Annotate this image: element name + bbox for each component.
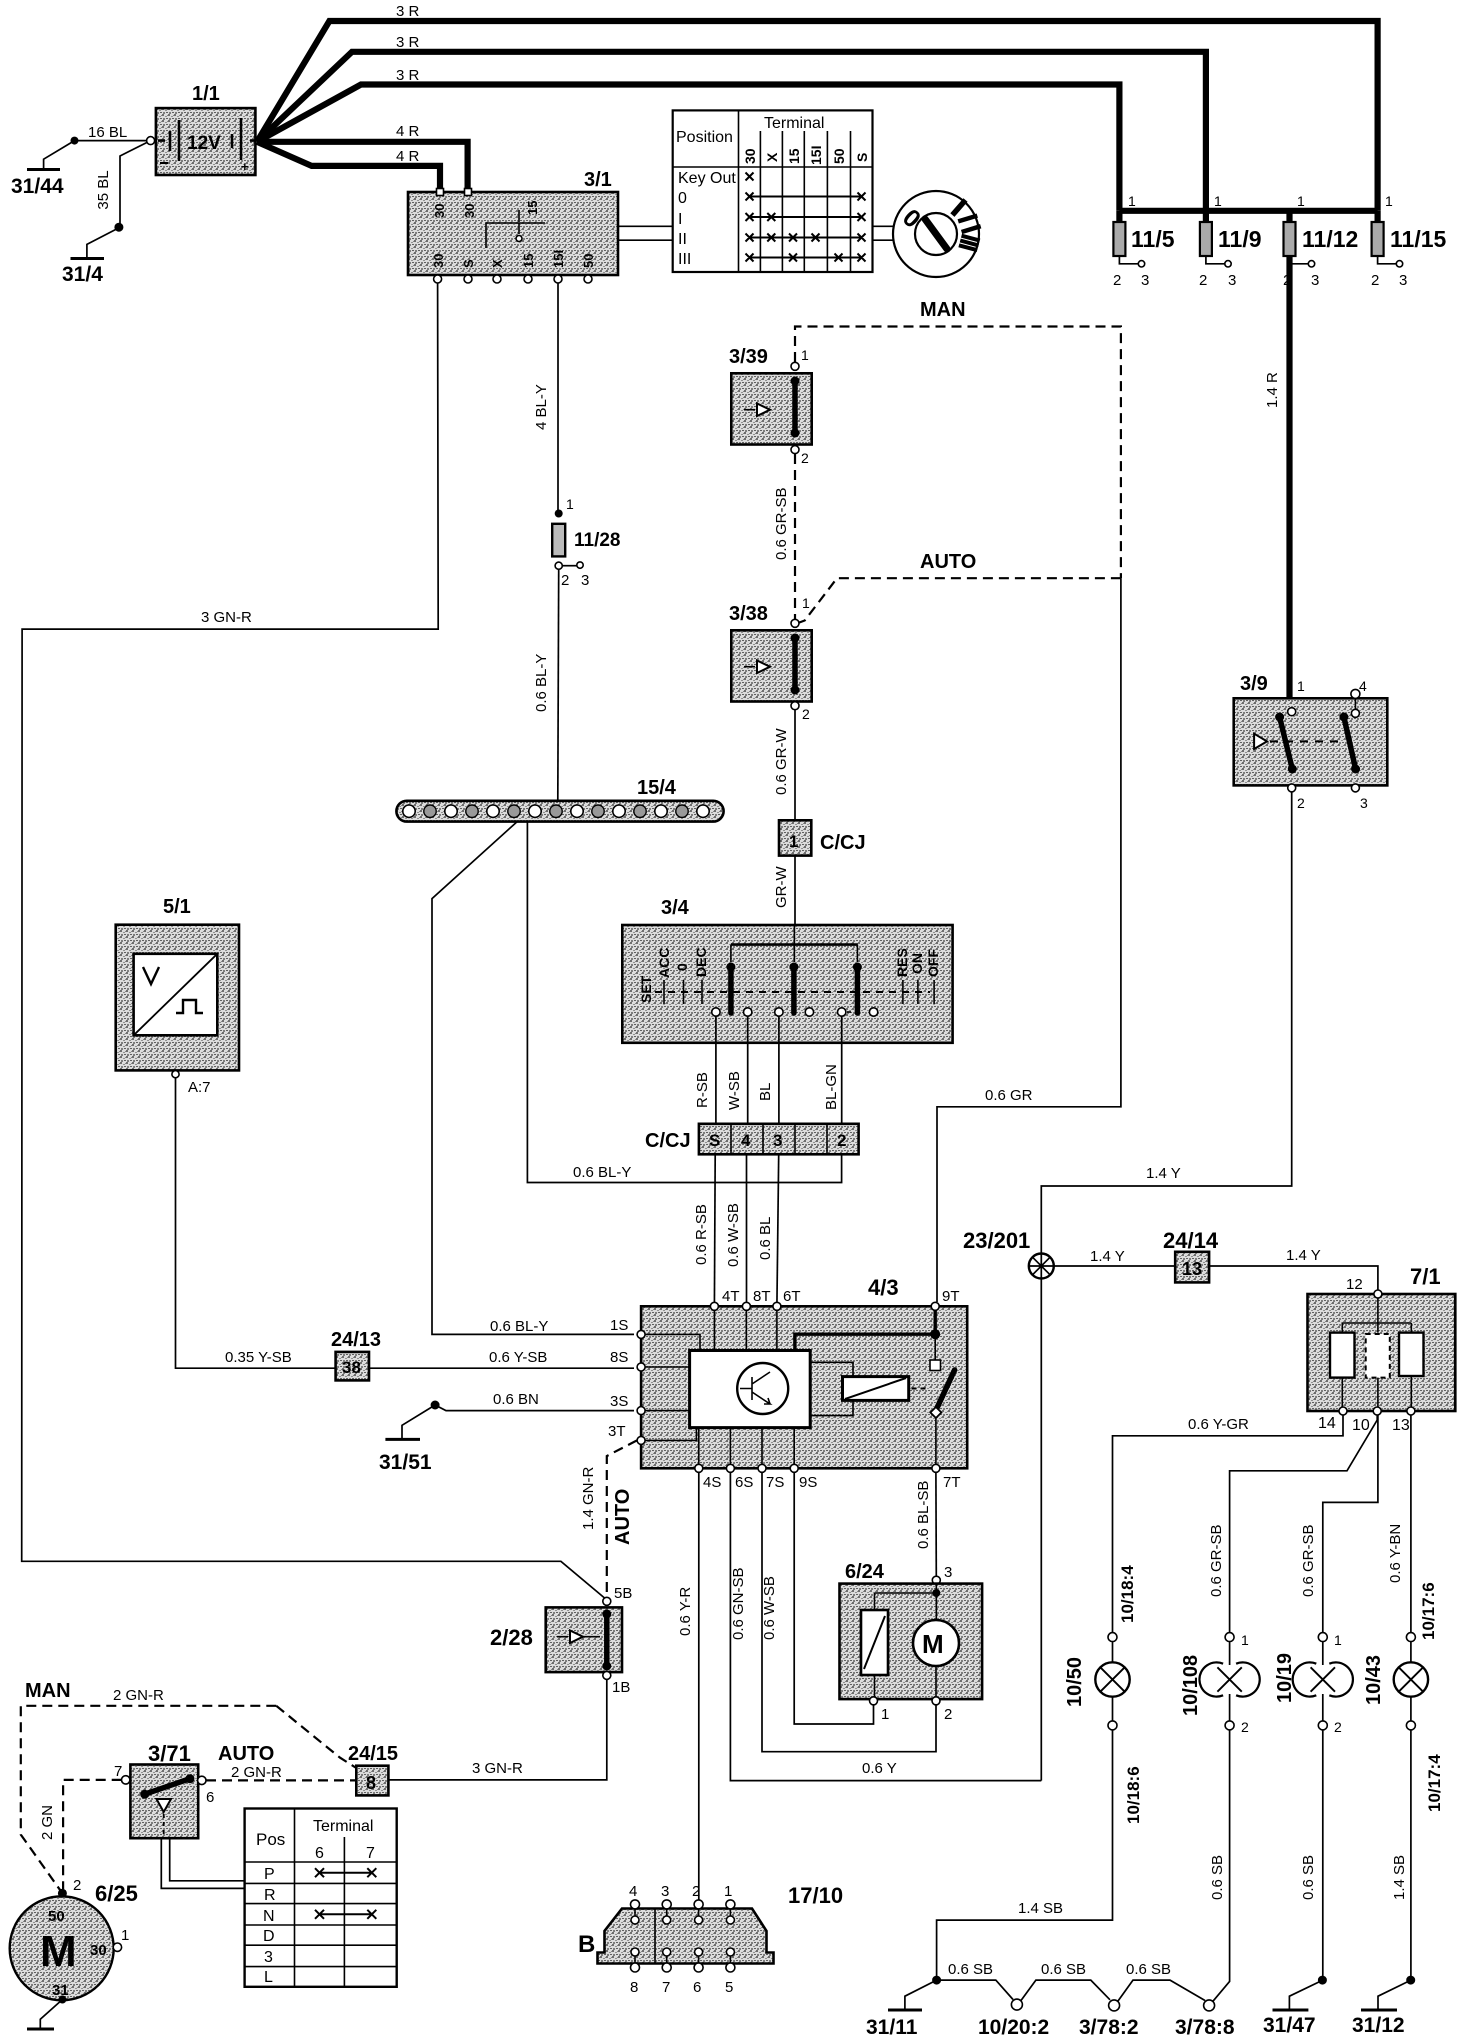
svg-text:1.4 Y: 1.4 Y [1286, 1247, 1321, 1264]
svg-text:2: 2 [692, 1883, 700, 1900]
wire 1.4 SB (lamp 10/43 to ground 31/12) [1378, 1730, 1415, 2009]
svg-text:2: 2 [1199, 272, 1207, 289]
connector strip 15/4 [396, 777, 723, 822]
wire 0.6 W-SB (C/CJ to 4/3 pin 8T) [725, 1154, 747, 1306]
svg-text:X: X [490, 259, 505, 268]
wire table to key symbol upper [873, 225, 894, 227]
svg-text:3: 3 [661, 1883, 669, 1900]
svg-text:16 BL: 16 BL [88, 124, 127, 141]
svg-text:0.6 Y: 0.6 Y [862, 1760, 897, 1777]
svg-text:S: S [461, 259, 476, 268]
ground 31/47 [1263, 2010, 1316, 2037]
dashed wire AUTO net [798, 578, 1121, 623]
svg-text:11/15: 11/15 [1390, 226, 1446, 252]
svg-text:Terminal: Terminal [313, 1818, 373, 1835]
svg-text:6: 6 [693, 1979, 701, 1996]
ground 31/44 [11, 170, 64, 199]
wire 0.6 SB (31/11 to 10/20:2) [937, 1961, 1013, 2000]
svg-text:1.4 SB: 1.4 SB [1018, 1900, 1063, 1917]
wire 3/71 to PNP table [161, 1838, 244, 1888]
wire 0.6 BN (31/51 to 4/3 pin 3S) [402, 1391, 634, 1438]
svg-text:24/14: 24/14 [1163, 1228, 1219, 1253]
connector 17/10 [578, 1883, 843, 1996]
lamp 10/50 [1064, 1565, 1143, 1824]
svg-text:11/12: 11/12 [1302, 226, 1358, 252]
svg-text:I: I [678, 211, 682, 228]
svg-text:1: 1 [1241, 1632, 1249, 1648]
svg-text:BL-GN: BL-GN [823, 1064, 840, 1110]
svg-text:30: 30 [90, 1942, 107, 1959]
svg-text:2: 2 [801, 450, 809, 466]
svg-text:4S: 4S [703, 1474, 721, 1491]
wire 3 R (battery to fuse 11/5 feed) [257, 85, 1119, 211]
svg-text:30: 30 [462, 204, 477, 218]
svg-text:1.4 Y: 1.4 Y [1090, 1248, 1125, 1265]
svg-text:0.6 BL-Y: 0.6 BL-Y [490, 1318, 548, 1335]
svg-text:C/CJ: C/CJ [645, 1130, 691, 1152]
svg-text:2/28: 2/28 [490, 1625, 533, 1650]
connector 24/15 [348, 1743, 398, 1795]
svg-text:AUTO: AUTO [612, 1489, 634, 1545]
svg-text:Position: Position [676, 129, 733, 146]
wire 0.6 R-SB (C/CJ to 4/3 pin 4T) [693, 1154, 715, 1306]
svg-text:1: 1 [1334, 1632, 1342, 1648]
svg-text:38: 38 [342, 1358, 361, 1377]
junction 23/201 [963, 1228, 1054, 1781]
ground 31/4 [62, 259, 104, 287]
svg-text:1: 1 [566, 496, 574, 512]
svg-text:30: 30 [432, 204, 447, 218]
svg-text:L: L [264, 1969, 273, 1986]
dashed wire 2 GN (3/71 pin 7 to 6/25 pin 2) [39, 1780, 122, 1889]
wire 3 GN-R (2/28 pin 1B to 24/15) [388, 1679, 606, 1780]
svg-text:3/9: 3/9 [1240, 673, 1268, 695]
splice 3/78:8 [1175, 2000, 1235, 2039]
svg-text:4 R: 4 R [396, 123, 420, 140]
splice 10/20:2 [978, 1999, 1049, 2039]
relay 3/9 [1234, 673, 1388, 811]
svg-text:2: 2 [561, 572, 569, 589]
lamp 10/19 [1274, 1632, 1353, 1735]
svg-text:3/78:8: 3/78:8 [1175, 2016, 1235, 2039]
svg-text:W-SB: W-SB [726, 1071, 743, 1110]
connector C/CJ (S 4 3 2) [645, 1124, 859, 1155]
diode unit 2/28 [490, 1585, 632, 1696]
svg-text:DEC: DEC [693, 947, 709, 977]
wire (4/3 pin 9S to 6/24 pin 1) [794, 1473, 873, 1724]
svg-text:II: II [678, 231, 687, 248]
svg-text:1: 1 [121, 1927, 129, 1944]
svg-text:7: 7 [366, 1845, 375, 1862]
svg-text:4 BL-Y: 4 BL-Y [533, 384, 550, 430]
svg-text:3T: 3T [608, 1423, 626, 1440]
svg-text:RES: RES [894, 948, 910, 977]
svg-text:31/51: 31/51 [379, 1451, 432, 1474]
svg-text:17/10: 17/10 [788, 1883, 843, 1908]
svg-text:11/28: 11/28 [574, 530, 621, 551]
wire 0.6 Y-GR (7/1 pin 14 to lamp 10/50) [1113, 1415, 1344, 1633]
ground 31/11 [866, 2010, 922, 2039]
wire BL (3/4 to C/CJ 3) [757, 1016, 779, 1124]
wire 0.6 BL (C/CJ to 4/3 pin 6T) [757, 1154, 779, 1306]
svg-text:3/39: 3/39 [729, 346, 768, 368]
PNP position table [245, 1809, 397, 1987]
svg-text:III: III [678, 251, 691, 268]
svg-text:1: 1 [1128, 193, 1136, 209]
svg-text:3: 3 [1360, 795, 1368, 811]
wire 0.6 GR-SB (7/1 pin 10 to lamp 10/19) [1300, 1415, 1378, 1633]
svg-text:3 R: 3 R [396, 67, 420, 84]
svg-text:24/13: 24/13 [331, 1329, 381, 1351]
svg-text:2: 2 [1334, 1719, 1342, 1735]
svg-text:23/201: 23/201 [963, 1228, 1030, 1253]
wire 0.6 GN-SB (4/3 pin 6S to 23/201) [730, 1473, 1041, 1781]
svg-text:5: 5 [725, 1979, 733, 1996]
svg-text:3 GN-R: 3 GN-R [201, 609, 252, 626]
svg-text:5B: 5B [614, 1585, 632, 1602]
svg-text:X: X [764, 152, 780, 162]
svg-text:10/17:4: 10/17:4 [1425, 1754, 1444, 1812]
svg-text:0: 0 [678, 190, 687, 207]
wire 1.4 R (fuse 11/12 to 3/9 pin 1) [1264, 256, 1290, 706]
svg-text:11/9: 11/9 [1218, 226, 1262, 252]
svg-text:13: 13 [1182, 1259, 1202, 1279]
svg-text:1B: 1B [612, 1679, 630, 1696]
svg-text:10/20:2: 10/20:2 [978, 2016, 1049, 2039]
connector 24/14 [1163, 1228, 1219, 1282]
svg-text:5/1: 5/1 [163, 896, 191, 918]
svg-text:6T: 6T [783, 1288, 801, 1305]
wire 0.6 BL-Y (15/4 to 4/3 pin 1S) [432, 822, 634, 1335]
svg-text:3: 3 [944, 1564, 952, 1581]
svg-text:15: 15 [525, 201, 540, 215]
svg-text:8S: 8S [610, 1349, 628, 1366]
svg-text:31/44: 31/44 [11, 175, 64, 198]
svg-text:10: 10 [1352, 1417, 1370, 1434]
svg-text:+: + [241, 159, 249, 174]
svg-text:2 GN-R: 2 GN-R [113, 1687, 164, 1704]
svg-text:0.6 BL-Y: 0.6 BL-Y [533, 654, 550, 712]
wire 0.6 Y-R (4/3 pin 4S to 17/10 pin 2) [677, 1473, 699, 1900]
wire 1.4 Y (3/9 pin 2 to 23/201) [1041, 792, 1291, 1254]
svg-text:3: 3 [1228, 272, 1236, 289]
ignition position table [673, 110, 873, 272]
wire R-SB (3/4 to C/CJ S) [694, 1016, 716, 1124]
svg-text:11/5: 11/5 [1131, 226, 1175, 252]
svg-text:31/4: 31/4 [62, 263, 103, 286]
svg-text:ACC: ACC [656, 948, 672, 978]
svg-text:31/11: 31/11 [866, 2016, 918, 2039]
fuse bus bar [1119, 208, 1377, 214]
svg-text:7: 7 [114, 1763, 122, 1780]
wire 0.6 GR-SB (7/1 pin 10 to lamp 10/108) [1208, 1415, 1377, 1633]
svg-text:0.6 Y-R: 0.6 Y-R [677, 1587, 694, 1636]
svg-text:P: P [264, 1866, 275, 1883]
svg-text:0.6 SB: 0.6 SB [1300, 1855, 1317, 1900]
svg-text:6: 6 [206, 1789, 214, 1806]
wire 0.6 GR-W (3/38 to connector C/CJ 1) [773, 710, 795, 821]
svg-text:1: 1 [1297, 678, 1305, 694]
svg-text:10/50: 10/50 [1064, 1657, 1086, 1707]
svg-text:0.6 Y-BN: 0.6 Y-BN [1387, 1524, 1404, 1583]
wire 0.6 BL-SB (4/3 pin 7T to 6/24 pin 3) [915, 1473, 936, 1576]
svg-text:Pos: Pos [256, 1830, 285, 1849]
wire BL-GN (3/4 to C/CJ 2) [823, 1016, 842, 1124]
svg-text:10/43: 10/43 [1363, 1655, 1385, 1705]
svg-text:13: 13 [1392, 1417, 1410, 1434]
svg-text:M: M [40, 1927, 77, 1976]
wire 0.6 GR (AUTO net to 4/3 pin 9T) [937, 578, 1121, 1302]
wire 4 BL-Y (3/1 terminal 15 to fuse 11/28) [533, 283, 558, 510]
svg-text:3: 3 [581, 572, 589, 589]
svg-text:M: M [922, 1629, 944, 1659]
svg-text:3: 3 [1399, 272, 1407, 289]
svg-text:0.6 GN-SB: 0.6 GN-SB [730, 1567, 747, 1640]
ignition switch 3/1 [408, 169, 618, 283]
svg-text:0.6 BL-Y: 0.6 BL-Y [573, 1164, 631, 1181]
svg-text:0: 0 [674, 963, 690, 971]
svg-text:0.6 GR-SB: 0.6 GR-SB [1208, 1524, 1225, 1597]
pedal switch 3/38 [729, 595, 812, 722]
svg-text:AUTO: AUTO [218, 1743, 274, 1765]
wire 35 BL battery to ground 31/4 [87, 141, 151, 258]
dashed wire 0.6 GR-SB (3/39 to 3/38) [773, 454, 795, 619]
wire 3 GN-R (3/1 terminal 30 to 2/28 pin 5B) [22, 283, 607, 1600]
svg-text:3/1: 3/1 [584, 169, 612, 191]
svg-text:8: 8 [630, 1979, 638, 1996]
svg-text:7/1: 7/1 [1410, 1264, 1441, 1289]
svg-text:Terminal: Terminal [764, 115, 824, 132]
svg-text:1S: 1S [610, 1317, 628, 1334]
svg-text:2: 2 [1371, 272, 1379, 289]
svg-text:6S: 6S [735, 1474, 753, 1491]
wire 0.6 Y-SB (24/13 to 4/3 pin 8S) [369, 1349, 634, 1368]
svg-text:4 R: 4 R [396, 148, 420, 165]
wire 0.6 SB (3/78:2 to 3/78:8) [1118, 1961, 1205, 2001]
svg-text:3 R: 3 R [396, 34, 420, 51]
svg-text:3 GN-R: 3 GN-R [472, 1760, 523, 1777]
svg-text:15I: 15I [551, 250, 566, 268]
svg-text:0.6 Y-GR: 0.6 Y-GR [1188, 1416, 1249, 1433]
svg-text:GR-W: GR-W [773, 866, 790, 908]
cruise control module 4/3 [608, 1275, 967, 1491]
svg-text:50: 50 [581, 254, 596, 268]
svg-text:N: N [263, 1908, 275, 1925]
wire table to key symbol lower [873, 239, 897, 241]
svg-text:15: 15 [786, 148, 802, 164]
gear selector switch 3/71 [114, 1741, 282, 1838]
wire 0.6 SB (lamp 10/19 to ground 31/47) [1289, 1730, 1327, 2009]
svg-text:2: 2 [1241, 1719, 1249, 1735]
svg-text:3/78:2: 3/78:2 [1079, 2016, 1139, 2039]
dashed wire 1.4 GN-R AUTO (4/3 pin 3T to 2/28 pin 5B) [580, 1440, 637, 1598]
svg-text:4T: 4T [722, 1288, 740, 1305]
svg-text:2: 2 [73, 1877, 81, 1894]
svg-text:2: 2 [802, 706, 810, 722]
svg-text:10/17:6: 10/17:6 [1419, 1582, 1438, 1640]
svg-text:MAN: MAN [920, 299, 966, 321]
svg-text:30: 30 [742, 148, 758, 164]
wire 0.35 Y-SB (5/1 to 24/13) [176, 1078, 336, 1368]
svg-text:OFF: OFF [925, 949, 941, 977]
connector C/CJ pin 1 [779, 820, 866, 855]
ground 31/51 [379, 1439, 432, 1474]
svg-text:15I: 15I [808, 146, 824, 165]
svg-text:1: 1 [881, 1706, 889, 1723]
wire 1.4 Y (23/201 to 24/14) [1054, 1248, 1175, 1266]
svg-text:ON: ON [909, 953, 925, 974]
wire 16 BL battery to ground 31/44 [44, 124, 151, 170]
svg-text:2 GN-R: 2 GN-R [231, 1764, 282, 1781]
svg-text:MAN: MAN [25, 1680, 71, 1702]
svg-text:3S: 3S [610, 1393, 628, 1410]
wire 0.6 SB (10/20:2 to 3/78:2) [1021, 1961, 1110, 2001]
svg-text:31/47: 31/47 [1263, 2014, 1316, 2037]
svg-text:D: D [263, 1928, 275, 1945]
svg-text:0.6 SB: 0.6 SB [948, 1961, 993, 1978]
svg-text:8: 8 [366, 1773, 376, 1793]
svg-text:0.6 W-SB: 0.6 W-SB [725, 1203, 742, 1267]
svg-text:3: 3 [1141, 272, 1149, 289]
svg-text:1.4 SB: 1.4 SB [1391, 1855, 1408, 1900]
svg-text:SET: SET [638, 975, 654, 1003]
starter motor 6/25 [10, 1877, 138, 2028]
svg-text:4: 4 [629, 1883, 637, 1900]
instrument cluster 7/1 [1308, 1264, 1456, 1434]
svg-text:35 BL: 35 BL [95, 170, 112, 209]
svg-text:12V: 12V [187, 133, 221, 154]
svg-text:31/12: 31/12 [1352, 2014, 1405, 2037]
svg-text:2 GN: 2 GN [39, 1805, 56, 1840]
ground 31/12 [1352, 2010, 1405, 2037]
svg-text:15/4: 15/4 [637, 777, 677, 799]
svg-text:2: 2 [1113, 272, 1121, 289]
svg-text:0.6 GR: 0.6 GR [985, 1087, 1033, 1104]
svg-text:10/18:6: 10/18:6 [1124, 1766, 1143, 1824]
wire 1.4 Y (24/14 to 7/1 pin 12) [1209, 1247, 1378, 1293]
svg-text:6/24: 6/24 [845, 1561, 885, 1583]
svg-text:3/38: 3/38 [729, 603, 768, 625]
svg-text:6/25: 6/25 [95, 1881, 138, 1906]
svg-text:1.4 R: 1.4 R [1264, 372, 1281, 408]
svg-text:S: S [854, 153, 870, 162]
svg-text:A:7: A:7 [188, 1079, 211, 1096]
svg-text:0.6 Y-SB: 0.6 Y-SB [489, 1349, 547, 1366]
svg-text:50: 50 [831, 148, 847, 164]
svg-text:1: 1 [1214, 193, 1222, 209]
fuse 11/15 [1371, 193, 1446, 289]
dashed wire 2 GN-R MAN (to 24/15 and 6/25) [21, 1687, 357, 1893]
fuse 11/5 [1113, 193, 1175, 289]
svg-text:4: 4 [741, 1131, 751, 1150]
wire GR-W (C/CJ to 3/4) [773, 856, 795, 925]
battery 1/1 [147, 83, 256, 175]
svg-text:4/3: 4/3 [868, 1275, 899, 1300]
wire 4 R (battery to 3/1 terminal 30 left) [257, 142, 440, 190]
svg-text:2: 2 [837, 1131, 846, 1150]
dashed wire MAN net [795, 327, 1121, 579]
svg-text:3: 3 [1311, 272, 1319, 289]
svg-text:B: B [578, 1931, 595, 1958]
svg-text:0.6 SB: 0.6 SB [1041, 1961, 1086, 1978]
svg-text:7T: 7T [943, 1474, 961, 1491]
wire W-SB (3/4 to C/CJ 4) [726, 1016, 748, 1124]
svg-text:3: 3 [773, 1131, 782, 1150]
svg-text:50: 50 [48, 1908, 65, 1925]
pedal switch 3/39 [729, 346, 812, 466]
wire 3/1 to position table row I [618, 225, 673, 227]
svg-text:24/15: 24/15 [348, 1743, 398, 1765]
svg-text:0.6 BL: 0.6 BL [757, 1217, 774, 1260]
wire 3 R (battery to fuse 11/9 feed) [257, 52, 1206, 211]
wire 3/1 to position table row II [618, 239, 673, 241]
svg-text:15: 15 [521, 254, 536, 268]
wire 0.6 BL-Y (11/28 to 15/4) [533, 569, 559, 801]
ground 6/25 pin 31 [27, 2028, 54, 2031]
wire 0.6 BL-Y (15/4 to C/CJ pin 2) [527, 822, 841, 1183]
wire 0.6 Y-BN (7/1 pin 13 to lamp 10/43) [1387, 1415, 1411, 1633]
svg-text:1.4 GN-R: 1.4 GN-R [580, 1466, 597, 1530]
wire 4 R (battery to 3/1 terminal 30 right) [257, 142, 468, 190]
svg-text:BL: BL [757, 1083, 774, 1101]
svg-text:10/108: 10/108 [1180, 1655, 1202, 1716]
svg-text:R: R [264, 1887, 276, 1904]
wire 0.6 SB (lamp 10/108 to 3/78:8) [1209, 1730, 1230, 2001]
svg-text:0.6 GR-SB: 0.6 GR-SB [1300, 1524, 1317, 1597]
steering wheel switch 3/4 [622, 897, 952, 1043]
connector 24/13 [331, 1329, 381, 1380]
svg-text:Key Out: Key Out [678, 170, 736, 187]
svg-text:7: 7 [662, 1979, 670, 1996]
svg-text:1: 1 [1385, 193, 1393, 209]
svg-text:6: 6 [315, 1845, 324, 1862]
fuse 11/28 [552, 496, 620, 589]
dashed wire AUTO (3/71 pin 6 to 24/15) [206, 1779, 356, 1781]
svg-text:C/CJ: C/CJ [820, 832, 866, 854]
fuse 11/12 [1283, 193, 1358, 289]
lamp 10/108 [1180, 1632, 1260, 1735]
ignition key symbol [893, 191, 981, 277]
svg-text:0.6 R-SB: 0.6 R-SB [693, 1204, 710, 1265]
svg-text:3/71: 3/71 [148, 1741, 191, 1766]
svg-text:3 R: 3 R [396, 3, 420, 20]
svg-text:0.6 SB: 0.6 SB [1126, 1961, 1171, 1978]
splice 3/78:2 [1079, 2000, 1139, 2039]
svg-text:9S: 9S [799, 1474, 817, 1491]
fuse 11/9 [1199, 193, 1262, 289]
svg-text:1: 1 [789, 832, 798, 851]
svg-text:3: 3 [264, 1949, 273, 1966]
svg-text:0.6 BL-SB: 0.6 BL-SB [915, 1481, 932, 1549]
svg-text:AUTO: AUTO [920, 551, 976, 573]
svg-text:0.6 W-SB: 0.6 W-SB [761, 1576, 778, 1640]
lamp 10/43 [1363, 1582, 1444, 1812]
wire 0.6 W-SB (4/3 pin 7S to 6/24 pin 2) [761, 1473, 936, 1752]
svg-text:S: S [709, 1131, 720, 1150]
svg-text:1: 1 [1297, 193, 1305, 209]
svg-text:1: 1 [724, 1883, 732, 1900]
svg-text:4: 4 [1359, 678, 1367, 694]
svg-text:12: 12 [1346, 1276, 1363, 1293]
svg-text:30: 30 [431, 254, 446, 268]
svg-text:0.6 SB: 0.6 SB [1209, 1855, 1226, 1900]
svg-text:0.6 GR-W: 0.6 GR-W [773, 727, 790, 795]
svg-text:14: 14 [1318, 1415, 1336, 1432]
svg-text:7S: 7S [766, 1474, 784, 1491]
svg-text:8T: 8T [753, 1288, 771, 1305]
vacuum pump 6/24 [840, 1561, 983, 1723]
svg-text:10/18:4: 10/18:4 [1118, 1565, 1137, 1623]
